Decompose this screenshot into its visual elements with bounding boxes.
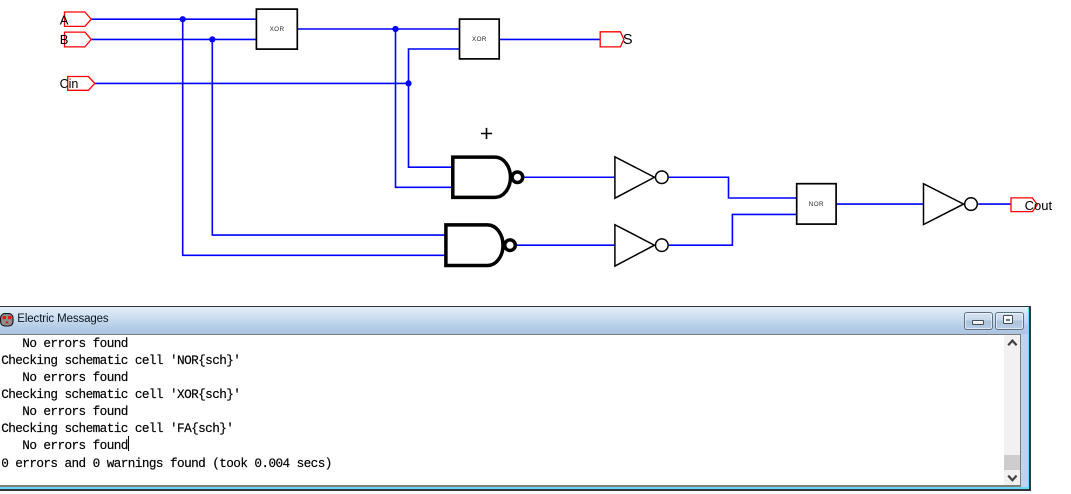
node B junction xyxy=(209,36,215,42)
inverter U6 bubble xyxy=(656,171,669,184)
inverter U7 bubble xyxy=(656,239,669,252)
NAND U3 bubble xyxy=(512,172,523,183)
export pin Cin xyxy=(68,77,95,91)
svg-text:XOR: XOR xyxy=(472,36,487,43)
svg-text:NOR: NOR xyxy=(809,201,824,208)
node A junction xyxy=(180,16,186,22)
window icon xyxy=(0,313,14,327)
cursor cross mark xyxy=(481,128,492,139)
wire XOR2 output to S xyxy=(499,38,600,40)
wire B horizontal xyxy=(91,38,256,40)
svg-text:Cin: Cin xyxy=(60,77,79,91)
export pin B xyxy=(65,32,92,47)
scrollbar down arrow xyxy=(1007,474,1018,482)
XOR box U1 xyxy=(256,9,297,49)
schematic canvas xyxy=(0,0,1071,305)
wire INV2 output to NOR xyxy=(669,214,797,245)
NAND U4 bubble xyxy=(505,240,516,251)
wire NAND1 output to INV1 xyxy=(524,176,615,178)
NAND gate U4 body xyxy=(446,225,503,266)
wire Cin branch down to NAND1 xyxy=(409,83,453,167)
svg-text:B: B xyxy=(60,32,69,47)
inverter U7 body xyxy=(615,225,655,266)
export pin A xyxy=(65,12,92,26)
export pin S xyxy=(600,32,624,47)
wire INV3 output to Cout xyxy=(978,203,1011,205)
export pin Cout xyxy=(1011,198,1037,212)
wire NOR output to INV3 xyxy=(836,203,923,205)
wire INV1 output to NOR xyxy=(669,177,797,198)
svg-text:Cout: Cout xyxy=(1025,198,1053,213)
minimize button xyxy=(964,312,993,330)
scrollbar xyxy=(1004,335,1020,486)
NOR box U5 xyxy=(797,184,836,224)
svg-text:XOR: XOR xyxy=(270,26,285,33)
svg-text:A: A xyxy=(60,12,69,27)
wire NAND2 output to INV2 xyxy=(517,244,615,246)
XOR box U2 xyxy=(460,19,500,59)
inverter U6 body xyxy=(615,157,655,198)
maximize button xyxy=(995,312,1024,330)
wire Cin branch up to XOR2 xyxy=(409,49,460,83)
wire Cin horizontal xyxy=(95,82,409,84)
inverter U8 bubble xyxy=(965,198,978,211)
node Cin junction xyxy=(405,80,411,86)
wire A branch down to NAND2 xyxy=(183,19,446,255)
NAND gate U3 body xyxy=(453,157,511,197)
wire XOR1 output to XOR2 xyxy=(297,28,459,30)
content area xyxy=(0,334,1021,488)
Electric Messages window xyxy=(0,306,1031,492)
wire B branch down to NAND2 xyxy=(212,39,446,235)
svg-text:S: S xyxy=(623,32,633,48)
scrollbar up arrow xyxy=(1007,339,1018,347)
wire XOR1 output branch to NAND1 xyxy=(396,29,453,187)
node XOR1-out junction xyxy=(392,26,398,32)
inverter U8 body xyxy=(924,184,964,225)
wire A horizontal xyxy=(91,18,256,20)
